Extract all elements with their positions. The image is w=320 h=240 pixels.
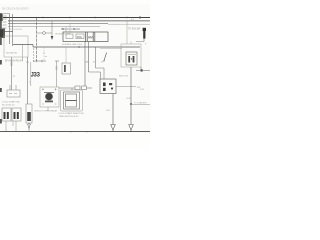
resistor box left mid	[62, 63, 71, 74]
stubs to ground	[6, 121, 16, 131]
feed stubs to fuse box	[65, 27, 67, 33]
left edge marks	[0, 60, 2, 65]
svg-text:IGN COIL: IGN COIL	[119, 76, 129, 78]
ground arrow G2	[129, 125, 134, 131]
stacked cells	[66, 94, 77, 100]
fuse stub dashed	[43, 47, 45, 61]
junction dot right	[130, 103, 132, 105]
node ring on B1	[139, 17, 141, 19]
wire vertical V1	[9, 14, 11, 44]
inner box	[64, 92, 80, 109]
svg-text:15A: 15A	[77, 35, 82, 39]
svg-text:TIME SWITCH N-20: TIME SWITCH N-20	[59, 116, 80, 118]
svg-text:TO STARTER: TO STARTER	[134, 102, 147, 105]
svg-text:W-L W-B B-R: W-L W-B B-R	[9, 29, 23, 31]
svg-text:TO IGN SW: TO IGN SW	[128, 28, 141, 30]
svg-text:CIRCUIT OPEN RELAY: CIRCUIT OPEN RELAY	[34, 110, 58, 113]
connector ECU strip left edge	[0, 13, 2, 45]
battery mark dark	[143, 28, 146, 31]
svg-text:5A GAUGE: 5A GAUGE	[6, 52, 18, 55]
wire bus B1	[3, 17, 150, 19]
wire vertical V5 with ticks	[56, 61, 58, 87]
fuse slot 1	[66, 34, 73, 39]
connector pair row	[75, 86, 80, 90]
injector tall box	[26, 104, 32, 123]
ignition switch contacts	[95, 47, 97, 60]
relay outlet down	[112, 94, 114, 125]
injector box 2	[12, 108, 21, 121]
connector pin block dark	[0, 14, 3, 21]
wire branch under coil box	[136, 67, 150, 71]
ground arrow small left	[28, 124, 31, 129]
svg-text:COLD START INJECTOR: COLD START INJECTOR	[59, 112, 85, 115]
svg-text:W-B: W-B	[106, 110, 111, 112]
svg-text:COLD START INJ: COLD START INJ	[2, 101, 20, 104]
wire pair down from fuse box	[85, 42, 89, 87]
wire vertical V6	[11, 57, 13, 90]
relay stub bottom	[47, 107, 49, 111]
junction dot	[78, 46, 79, 47]
wire bus B4 faint	[8, 26, 100, 28]
wire vertical in box	[22, 45, 24, 62]
svg-text:AM: AM	[88, 35, 93, 39]
ignition coil box	[121, 44, 141, 67]
injector time switch outer box	[61, 90, 83, 111]
wire into box top	[71, 88, 73, 90]
wire coil down	[130, 67, 132, 125]
coil inner box	[126, 52, 137, 65]
connector C1 dark blob	[0, 29, 5, 39]
sensor box small	[7, 90, 20, 97]
paper background	[0, 0, 150, 150]
svg-text:'86 CELICA 3S-GE EFI: '86 CELICA 3S-GE EFI	[2, 6, 29, 10]
ground bus bottom	[0, 131, 150, 133]
faint second line	[100, 48, 122, 50]
wire bus B3	[8, 23, 108, 25]
pin ticks	[3, 16, 7, 28]
svg-text:W-B: W-B	[127, 98, 132, 100]
relay K1 box	[40, 87, 59, 107]
scan band tint	[0, 4, 150, 133]
coil windings dark	[128, 56, 130, 63]
wire vertical V3 dashed	[36, 18, 38, 61]
fuse box FB	[63, 32, 108, 42]
capacitor arrow dark	[51, 21, 53, 36]
svg-text:J33: J33	[31, 72, 41, 78]
top edge wire	[0, 12, 10, 14]
wire jog to relay	[89, 60, 105, 79]
stray dots mid	[44, 53, 45, 54]
svg-text:No.10 No.20: No.10 No.20	[2, 105, 15, 107]
svg-text:EFI MAIN RELAY: EFI MAIN RELAY	[5, 59, 23, 62]
ground arrow G1	[111, 125, 116, 131]
relay coil dark blob	[45, 93, 53, 101]
coil top ticks	[127, 21, 131, 44]
switch blade	[104, 53, 107, 61]
relay contacts dark	[103, 83, 106, 87]
svg-text:IG: IG	[93, 62, 96, 64]
box ECU outline left	[4, 36, 28, 57]
connector dashes at node row	[33, 60, 59, 62]
relay outlet right	[116, 86, 136, 88]
svg-text:AM: AM	[86, 61, 89, 64]
node ticks on B1	[43, 17, 127, 19]
wire from ECU to switch row	[13, 45, 140, 48]
junction dots on bus	[70, 131, 71, 132]
relay K2 box	[100, 79, 116, 94]
wire stub below jog	[33, 48, 35, 62]
svg-text:W: W	[13, 76, 15, 78]
fuse F1 circle	[43, 32, 46, 35]
divider thick	[86, 32, 95, 42]
fuse slot 2 with value	[76, 34, 84, 39]
wire vertical V7	[27, 57, 29, 104]
wire bus B3 right faint	[108, 23, 150, 25]
wire vertical V2	[12, 14, 14, 46]
injector box 1	[2, 108, 11, 121]
svg-text:FUSIBLE LINK 0.5G: FUSIBLE LINK 0.5G	[62, 44, 82, 46]
wire bus B2	[8, 20, 150, 22]
svg-text:B-W: B-W	[140, 89, 144, 91]
wire branch right	[131, 104, 150, 106]
wire vertical V4	[30, 62, 32, 86]
